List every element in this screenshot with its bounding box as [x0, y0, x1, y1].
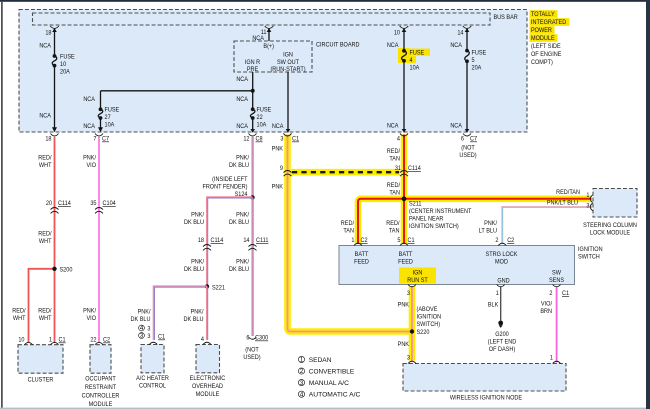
- svg-text:10: 10: [60, 61, 67, 68]
- svg-text:SWITCH: SWITCH: [578, 254, 600, 261]
- svg-text:AUTOMATIC A/C: AUTOMATIC A/C: [309, 392, 361, 399]
- svg-text:SW: SW: [552, 270, 562, 277]
- pin 1 bottom cup: [497, 285, 505, 287]
- svg-text:20: 20: [46, 200, 53, 207]
- svg-text:FEED: FEED: [354, 259, 369, 266]
- svg-text:(INSIDE LEFT: (INSIDE LEFT: [212, 176, 247, 183]
- splice S220: [410, 329, 414, 333]
- wire PNK/DK BLU right branch: [251, 197, 253, 336]
- splice S211: [402, 196, 407, 201]
- pin 7 C7 cup: [95, 134, 103, 137]
- svg-text:MANUAL A/C: MANUAL A/C: [309, 380, 350, 387]
- connector C111: [249, 245, 257, 251]
- pin 2 C1 bottom cup: [553, 285, 561, 287]
- pin cup A/C: [149, 342, 157, 344]
- svg-text:PNK/: PNK/: [191, 212, 204, 219]
- wire fuse22 bottom: [252, 118, 254, 129]
- svg-text:10: 10: [18, 337, 25, 344]
- wire fuse4 bottom: [403, 61, 405, 130]
- svg-text:C1: C1: [158, 334, 165, 341]
- svg-text:GND: GND: [497, 278, 510, 285]
- svg-text:S221: S221: [212, 285, 225, 292]
- steering column lock module box: [593, 189, 637, 218]
- TIPM module box: [19, 10, 527, 133]
- wire IGN R PRE: [252, 72, 254, 109]
- svg-text:SW OUT: SW OUT: [277, 59, 299, 66]
- svg-text:DK BLU: DK BLU: [229, 219, 249, 226]
- svg-text:4: 4: [300, 391, 304, 398]
- svg-text:FUSE: FUSE: [60, 54, 75, 61]
- svg-text:OCCUPANT: OCCUPANT: [85, 376, 116, 383]
- frame bottom line: [0, 408, 646, 409]
- svg-text:6: 6: [246, 335, 249, 342]
- frame right bar: [646, 0, 650, 409]
- svg-text:BATT: BATT: [399, 251, 413, 258]
- svg-text:14: 14: [243, 237, 250, 244]
- pin 1 cup WIN: [553, 361, 561, 363]
- svg-text:C111: C111: [256, 237, 269, 244]
- wire PNK core IGN RUN ST to node: [411, 286, 413, 362]
- svg-text:3: 3: [147, 326, 150, 333]
- pin 1 cup: [51, 342, 59, 344]
- svg-text:NCA: NCA: [450, 123, 462, 130]
- svg-text:FUSE: FUSE: [472, 50, 487, 57]
- svg-text:MODULE: MODULE: [196, 391, 220, 398]
- svg-text:3: 3: [407, 355, 410, 362]
- svg-text:C1: C1: [292, 136, 299, 143]
- svg-text:5: 5: [397, 237, 400, 244]
- jumper black dashes: [292, 171, 399, 173]
- svg-text:DK BLU: DK BLU: [184, 266, 204, 273]
- svg-text:C7: C7: [470, 136, 477, 143]
- svg-text:3: 3: [300, 380, 304, 387]
- pin 10 cup: [25, 342, 33, 344]
- svg-text:PNK/: PNK/: [83, 155, 96, 162]
- wire fuse10 bottom: [54, 66, 56, 129]
- svg-text:LOCK MODULE: LOCK MODULE: [590, 230, 630, 237]
- svg-text:ELECTRONIC: ELECTRONIC: [190, 375, 226, 382]
- wire PNK core highlighted: [288, 135, 413, 332]
- pin 18 bottom cup: [51, 134, 59, 137]
- svg-text:INTEGRATED: INTEGRATED: [531, 19, 567, 26]
- svg-text:WHT: WHT: [39, 315, 52, 322]
- svg-text:2: 2: [549, 290, 552, 297]
- pin 2 C2 cup: [498, 243, 506, 245]
- fuse F4 highlight: [398, 48, 409, 63]
- svg-text:STRG LOCK: STRG LOCK: [486, 251, 519, 258]
- svg-text:RED/: RED/: [38, 231, 51, 238]
- svg-text:RED/TAN: RED/TAN: [556, 189, 580, 196]
- svg-text:(CENTER INSTRUMENT: (CENTER INSTRUMENT: [409, 208, 471, 215]
- svg-text:(NOT: (NOT: [245, 347, 259, 354]
- svg-text:FUSE: FUSE: [257, 107, 272, 114]
- svg-text:PANEL NEAR: PANEL NEAR: [409, 216, 444, 223]
- svg-text:10: 10: [394, 30, 401, 37]
- svg-text:FUSE: FUSE: [105, 107, 120, 114]
- svg-text:S220: S220: [417, 329, 430, 336]
- svg-text:NCA: NCA: [83, 123, 95, 130]
- svg-text:NCA: NCA: [236, 76, 248, 83]
- svg-text:20A: 20A: [472, 65, 482, 72]
- svg-text:FUSE: FUSE: [410, 50, 425, 57]
- svg-text:3: 3: [147, 333, 150, 340]
- svg-text:10A: 10A: [410, 65, 420, 72]
- pin 3 bottom cup: [408, 285, 416, 287]
- pin 6 C7 cup: [463, 134, 471, 137]
- wire fuse27 top: [100, 91, 102, 109]
- svg-text:IGNITION: IGNITION: [578, 246, 603, 253]
- svg-text:IGN: IGN: [283, 52, 293, 59]
- wire PNK/DK BLU left branch to S221: [207, 197, 253, 287]
- svg-text:WHT: WHT: [39, 238, 52, 245]
- svg-text:PNK/: PNK/: [236, 259, 249, 266]
- fuse F4: [402, 49, 406, 53]
- yellow band PNK run: [288, 135, 413, 332]
- svg-text:4: 4: [397, 136, 400, 143]
- svg-text:C2: C2: [507, 237, 514, 244]
- svg-text:1: 1: [300, 357, 304, 364]
- svg-text:BLK: BLK: [488, 302, 499, 309]
- wire RED/TAN core vertical: [403, 135, 405, 245]
- svg-text:RED/: RED/: [387, 148, 400, 155]
- svg-text:SEDAN: SEDAN: [309, 357, 332, 364]
- connector C104: [95, 208, 103, 214]
- svg-text:20A: 20A: [60, 69, 70, 76]
- wire BLK: [500, 287, 502, 321]
- svg-text:B(+): B(+): [263, 43, 274, 50]
- TIPM title highlight: [530, 10, 558, 18]
- yellow band IGN RUN ST to WIN: [409, 286, 416, 361]
- yellow band RED/TAN vertical: [401, 135, 408, 245]
- bus bar box: [33, 13, 491, 25]
- svg-text:S211: S211: [409, 201, 422, 208]
- notes legend: [298, 356, 360, 398]
- wire PNK/DK BLU to EOM pin 4: [206, 287, 208, 341]
- svg-text:C1: C1: [59, 337, 66, 344]
- svg-text:PNK/: PNK/: [236, 155, 249, 162]
- yellow band S211 horizontal: [358, 199, 592, 244]
- svg-text:C114: C114: [408, 165, 421, 172]
- pin 3 C1 cup redraw: [284, 134, 292, 137]
- svg-text:C7: C7: [102, 136, 109, 143]
- wireless ignition node box: [403, 364, 566, 392]
- frame left line: [1, 2, 2, 409]
- splice S221: [205, 284, 209, 288]
- svg-text:NCA: NCA: [387, 42, 399, 49]
- svg-text:NCA: NCA: [450, 42, 462, 49]
- wire fuse27 bottom: [100, 118, 102, 129]
- svg-text:RESTRAINT: RESTRAINT: [85, 384, 116, 391]
- pin 18 top: [50, 26, 59, 28]
- pin 6 C300 end cup: [249, 337, 257, 339]
- ground G200: [498, 321, 503, 326]
- svg-text:OF DASH): OF DASH): [489, 346, 515, 353]
- svg-text:RED/: RED/: [387, 182, 400, 189]
- TIPM bottom pin arrows: [52, 127, 469, 132]
- pin 11: [265, 26, 274, 28]
- svg-text:PNK: PNK: [272, 184, 284, 191]
- svg-text:NCA: NCA: [236, 96, 248, 103]
- svg-text:PNK/: PNK/: [191, 259, 204, 266]
- svg-text:4: 4: [140, 325, 144, 332]
- svg-text:C300: C300: [255, 335, 269, 342]
- svg-text:4: 4: [201, 336, 204, 343]
- wire fuse10 top: [54, 29, 56, 56]
- svg-text:A/C HEATER: A/C HEATER: [136, 375, 169, 382]
- pin 3 cup WIN: [408, 361, 416, 363]
- wire fuse5 top: [466, 29, 468, 52]
- svg-text:PNK/: PNK/: [83, 308, 96, 315]
- svg-text:VIO: VIO: [86, 162, 96, 169]
- svg-text:RED/: RED/: [38, 155, 51, 162]
- svg-text:LT BLU: LT BLU: [479, 228, 498, 235]
- wire NCA horizontal to fuse27: [101, 90, 253, 92]
- frame top bar: [0, 0, 650, 2]
- svg-text:22: 22: [257, 114, 264, 121]
- svg-text:NCA: NCA: [272, 123, 284, 130]
- svg-text:MODULE: MODULE: [89, 401, 113, 408]
- circuit board box: [234, 41, 312, 72]
- pin 3 C1 cup: [284, 134, 292, 137]
- svg-text:FRONT FENDER): FRONT FENDER): [202, 184, 247, 191]
- svg-text:G200: G200: [495, 331, 509, 338]
- svg-text:CONTROL: CONTROL: [139, 383, 166, 390]
- svg-text:3: 3: [407, 290, 410, 297]
- svg-text:(NOT: (NOT: [461, 145, 475, 152]
- svg-text:USED): USED): [243, 354, 260, 361]
- svg-text:SENS: SENS: [549, 277, 564, 284]
- node junction: [251, 89, 255, 93]
- pin 10: [400, 26, 409, 28]
- svg-text:CLUSTER: CLUSTER: [28, 377, 54, 384]
- svg-text:IGNITION SWITCH): IGNITION SWITCH): [409, 223, 459, 230]
- wire PNK/DK BLU main: [251, 137, 253, 197]
- wire RED/TAN core horizontal + left elbow: [358, 199, 592, 244]
- svg-text:USED): USED): [459, 152, 476, 159]
- pin 5 C1 cup: [400, 243, 408, 245]
- svg-text:31: 31: [395, 165, 402, 172]
- svg-text:PNK: PNK: [398, 341, 410, 348]
- svg-text:BUS BAR: BUS BAR: [494, 14, 519, 21]
- electronic overhead module box: [196, 345, 220, 373]
- svg-text:NCA: NCA: [39, 43, 51, 50]
- svg-text:DK BLU: DK BLU: [229, 162, 249, 169]
- wire IGN SW OUT: [287, 72, 289, 129]
- svg-text:RED/: RED/: [341, 220, 354, 227]
- svg-text:12: 12: [243, 136, 250, 143]
- wire fuse4 top: [403, 29, 405, 51]
- svg-text:WHT: WHT: [39, 162, 52, 169]
- svg-text:POWER: POWER: [531, 27, 552, 34]
- svg-text:1: 1: [550, 355, 553, 362]
- svg-text:C2: C2: [361, 237, 368, 244]
- svg-text:CIRCUIT BOARD: CIRCUIT BOARD: [316, 42, 360, 49]
- pin cup EOM: [203, 342, 211, 344]
- svg-text:NCA: NCA: [83, 96, 95, 103]
- fuse F10: [53, 54, 57, 58]
- svg-text:RUN ST: RUN ST: [407, 277, 428, 284]
- svg-text:BATT: BATT: [355, 251, 369, 258]
- svg-text:C114: C114: [211, 237, 224, 244]
- svg-text:BRN: BRN: [540, 308, 552, 315]
- svg-text:NCA: NCA: [252, 35, 264, 42]
- svg-text:3: 3: [280, 136, 283, 143]
- svg-text:TAN: TAN: [389, 190, 400, 197]
- svg-text:PNK/: PNK/: [138, 309, 151, 316]
- wire PNK/VIO: [98, 137, 100, 342]
- wire PNK/DK BLU to A/C heater control: [153, 286, 207, 340]
- fuse F5: [465, 49, 469, 53]
- svg-text:TOTALLY: TOTALLY: [531, 11, 555, 18]
- svg-text:IGNITION: IGNITION: [417, 314, 442, 321]
- pin 4 cup redraw: [400, 134, 408, 137]
- pin 1 cup: [590, 195, 592, 203]
- svg-text:MODULE: MODULE: [531, 35, 555, 42]
- connector C114 on RED/WHT: [51, 208, 59, 214]
- svg-text:14: 14: [457, 30, 464, 37]
- svg-text:6: 6: [461, 136, 464, 143]
- svg-text:RED/: RED/: [386, 220, 399, 227]
- svg-text:35: 35: [90, 200, 97, 207]
- cluster box: [18, 345, 63, 374]
- svg-text:S200: S200: [60, 267, 73, 274]
- svg-text:STEERING COLUMN: STEERING COLUMN: [583, 222, 637, 229]
- svg-text:TAN: TAN: [389, 156, 400, 163]
- svg-text:NCA: NCA: [39, 113, 51, 120]
- svg-text:DK BLU: DK BLU: [184, 316, 204, 323]
- svg-text:C114: C114: [58, 200, 71, 207]
- wire PNK/LT BLU: [502, 206, 592, 243]
- svg-text:1: 1: [586, 192, 589, 199]
- fuse F27: [99, 107, 103, 111]
- svg-text:VIO/: VIO/: [541, 301, 552, 308]
- wire VIO/BRN: [556, 287, 558, 363]
- svg-text:18: 18: [45, 30, 52, 37]
- IGN RUN ST highlight: [399, 268, 436, 284]
- splice S124: [250, 195, 254, 199]
- svg-text:PNK: PNK: [272, 146, 284, 153]
- svg-text:DK BLU: DK BLU: [184, 219, 204, 226]
- svg-text:WIRELESS IGNITION NODE: WIRELESS IGNITION NODE: [450, 395, 522, 402]
- svg-text:22: 22: [90, 337, 97, 344]
- pin 1 C2 cup: [354, 243, 362, 245]
- pin 22 C2 cup: [95, 342, 103, 344]
- wire fuse5 bottom: [466, 60, 468, 129]
- fuse F22: [251, 107, 255, 111]
- svg-text:4: 4: [410, 57, 413, 64]
- svg-text:PNK/: PNK/: [484, 220, 497, 227]
- ignition switch box: [339, 246, 575, 285]
- svg-text:OF ENGINE: OF ENGINE: [531, 51, 561, 58]
- svg-text:C8: C8: [256, 136, 263, 143]
- svg-text:WHT: WHT: [13, 315, 26, 322]
- svg-text:RED/: RED/: [12, 308, 25, 315]
- pin 14: [463, 26, 472, 28]
- svg-text:PNK: PNK: [398, 302, 410, 309]
- svg-text:3: 3: [586, 203, 589, 210]
- svg-text:(LEFT END: (LEFT END: [488, 339, 517, 346]
- svg-text:FEED: FEED: [398, 259, 413, 266]
- pin 4 cup: [400, 134, 408, 137]
- svg-text:SWITCH): SWITCH): [417, 321, 441, 328]
- svg-text:18: 18: [45, 136, 52, 143]
- svg-text:TAN: TAN: [343, 228, 354, 235]
- connector C114 pin 9: [284, 171, 292, 177]
- svg-text:10A: 10A: [257, 122, 267, 129]
- svg-text:RED/: RED/: [38, 308, 51, 315]
- pin 3 notes A/C: [139, 325, 166, 340]
- svg-text:3: 3: [140, 333, 144, 340]
- svg-text:IGN: IGN: [413, 270, 423, 277]
- yellow band dashed jumper: [291, 169, 400, 176]
- svg-text:DK BLU: DK BLU: [131, 316, 151, 323]
- svg-text:MOD: MOD: [495, 259, 508, 266]
- svg-text:C104: C104: [103, 200, 117, 207]
- svg-text:NCA: NCA: [236, 123, 248, 130]
- svg-text:OVERHEAD: OVERHEAD: [192, 383, 223, 390]
- svg-text:PNK/: PNK/: [191, 309, 204, 316]
- svg-text:C1: C1: [408, 237, 415, 244]
- svg-text:9: 9: [280, 165, 283, 172]
- svg-text:27: 27: [105, 114, 112, 121]
- svg-text:C2: C2: [103, 337, 110, 344]
- svg-text:18: 18: [198, 237, 205, 244]
- svg-text:PNK/LT BLU: PNK/LT BLU: [547, 200, 578, 207]
- pin 12 C8 cup: [249, 134, 257, 137]
- svg-text:(ABOVE: (ABOVE: [417, 306, 438, 313]
- svg-text:5: 5: [472, 57, 475, 64]
- svg-text:VIO: VIO: [86, 315, 96, 322]
- svg-text:1: 1: [49, 337, 52, 344]
- svg-text:CONTROLLER: CONTROLLER: [82, 393, 120, 400]
- splice S200: [52, 267, 56, 271]
- svg-text:C1: C1: [562, 290, 569, 297]
- svg-text:NCA: NCA: [387, 123, 399, 130]
- wire RED/WHT branch to cluster pin 10: [29, 269, 55, 342]
- connector C114 on RED/TAN: [400, 171, 408, 177]
- svg-text:DK BLU: DK BLU: [229, 266, 249, 273]
- svg-text:PNK/: PNK/: [236, 212, 249, 219]
- svg-text:7: 7: [93, 136, 96, 143]
- connector C114 on PNK/DK BLU: [203, 245, 211, 251]
- svg-text:2: 2: [300, 368, 304, 375]
- wire RED/WHT from pin 18: [54, 137, 56, 342]
- svg-text:IGN R: IGN R: [245, 59, 261, 66]
- svg-text:2: 2: [495, 237, 498, 244]
- svg-text:10A: 10A: [105, 122, 115, 129]
- svg-text:TAN: TAN: [389, 228, 400, 235]
- svg-text:(LEFT SIDE: (LEFT SIDE: [531, 43, 561, 50]
- TIPM top pin arrows: [52, 28, 469, 32]
- svg-text:COMPT): COMPT): [531, 59, 553, 66]
- pin 3 cup: [590, 203, 592, 211]
- wire B(+): [268, 29, 270, 41]
- occupant restraint controller module box: [90, 345, 111, 374]
- A/C heater control box: [141, 345, 164, 373]
- svg-text:1: 1: [351, 237, 354, 244]
- svg-text:CONVERTIBLE: CONVERTIBLE: [309, 368, 354, 375]
- svg-text:1: 1: [496, 290, 499, 297]
